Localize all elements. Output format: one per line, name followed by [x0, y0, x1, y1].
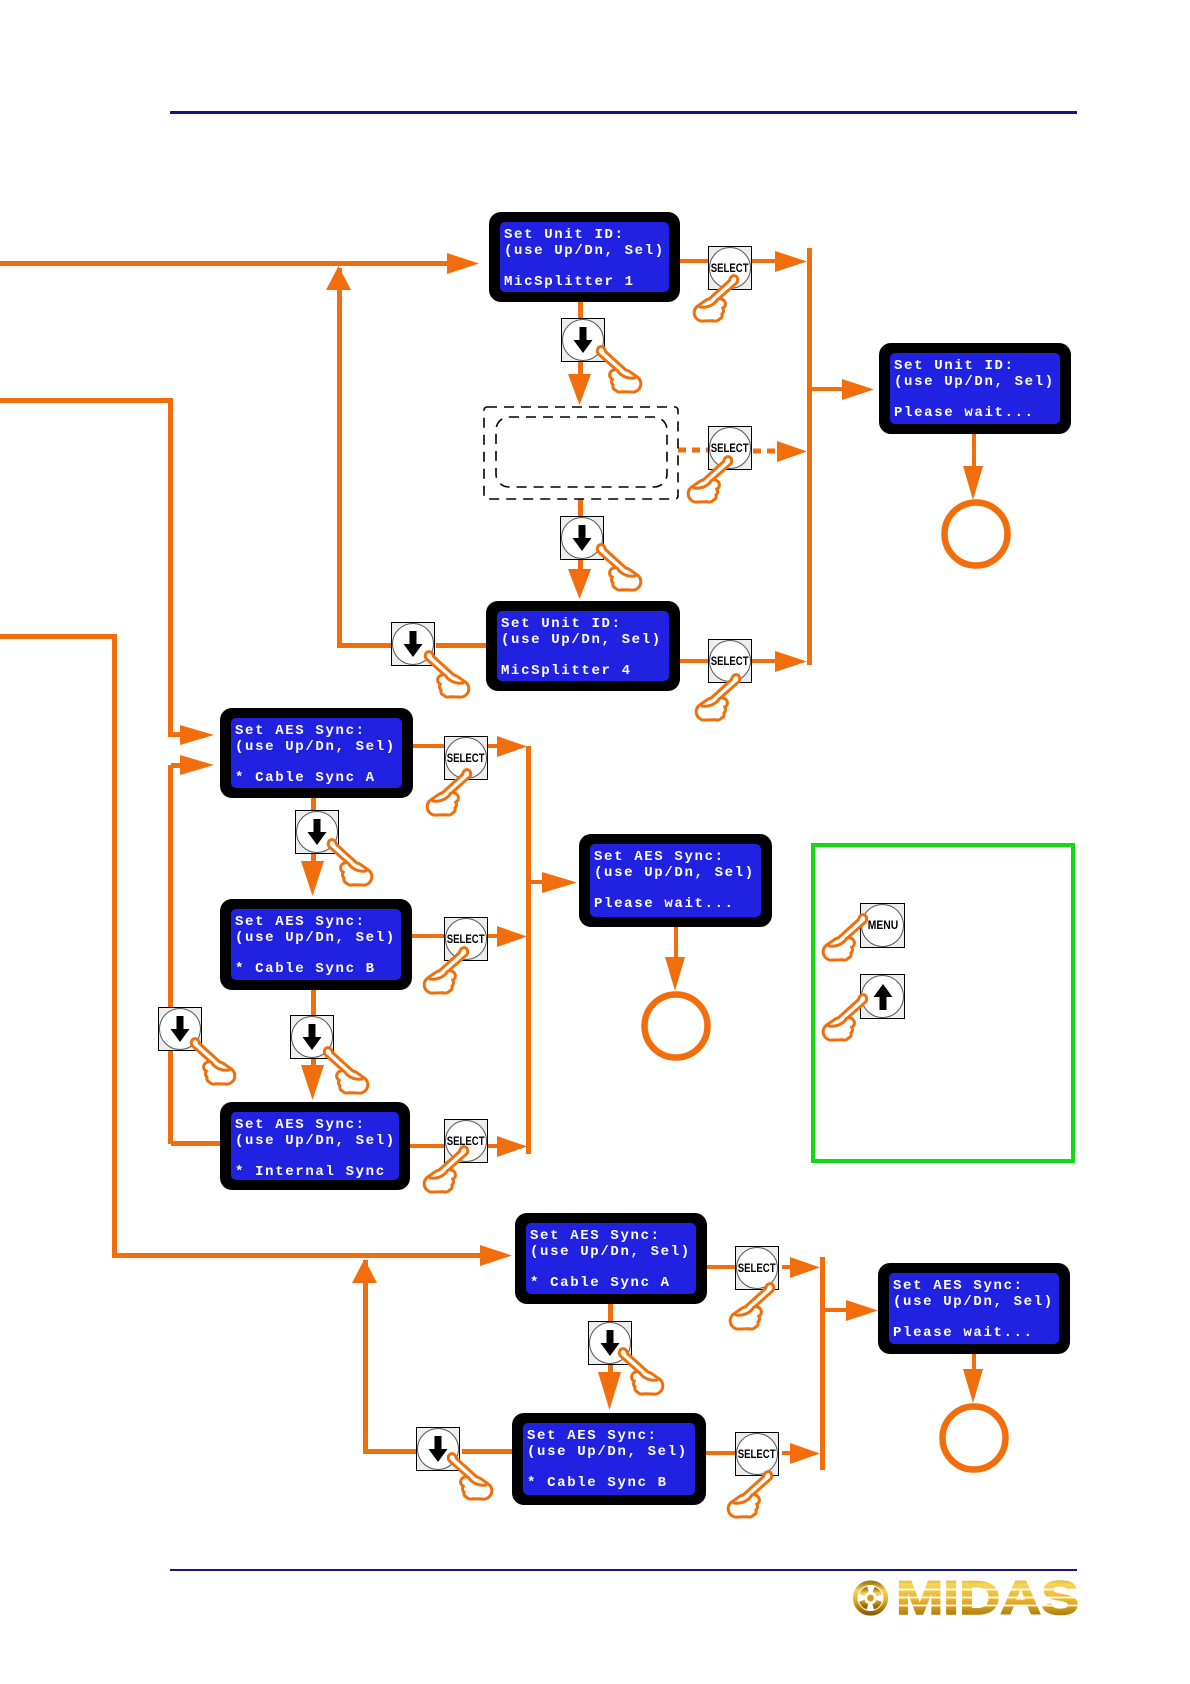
button SELECT S7: [735, 1246, 779, 1290]
wire: bus 2 vertical: [526, 746, 531, 1154]
top rule: [170, 111, 1077, 114]
wire: Cable Sync A screen to SELECT S4: [413, 744, 444, 748]
hand at button D1: [597, 347, 640, 393]
wire: entry line 3 from left edge down to bottom Set AES Sync screen: [0, 634, 117, 639]
button down D6: [290, 1015, 334, 1059]
hand at button D6: [324, 1048, 367, 1094]
button down D2: [560, 516, 604, 560]
wire: entry line 2 from left edge to Set AES Sync screen: [0, 398, 173, 403]
wire: arrow AES Please wait screen to end circle 2: [674, 927, 678, 958]
wire: wrap loop from down button D3 up to line 1: [337, 268, 342, 645]
LCD screen: Set Unit ID / Please wait: [879, 343, 1071, 434]
wire: arrow SELECT S4 to bus 2: [488, 744, 498, 748]
button SELECT S5: [444, 917, 488, 961]
wire: down button D8 to bottom Cable Sync B screen: [462, 1449, 512, 1454]
LCD screen: Set AES Sync / Please wait: [579, 834, 772, 927]
wire: Set Unit ID screen to SELECT S1: [680, 259, 708, 263]
wire: arrow bus 1 to Please wait screen: [812, 387, 843, 391]
LCD screen: Set AES Sync / Cable Sync B: [220, 899, 412, 990]
green highlight box: [813, 845, 1073, 1161]
button down D8: [416, 1427, 460, 1471]
button down D1: [561, 318, 605, 362]
wire: Internal Sync screen to SELECT S6: [410, 1144, 444, 1148]
wire: bottom Cable Sync B screen to SELECT S8: [706, 1451, 735, 1455]
hand at button D8: [448, 1454, 491, 1500]
hand at button MENU: [823, 915, 866, 961]
button SELECT S1: [708, 246, 752, 290]
wire: arrow from down button D4 to Cable Sync B screen: [311, 853, 316, 862]
hand at button S7: [730, 1284, 773, 1330]
MIDAS logo wordmark: [894, 1571, 1080, 1624]
wire: stub below bottom Cable Sync A screen: [608, 1304, 613, 1321]
hand at button D3: [425, 652, 468, 698]
wire: arrow SELECT S1 to bus 1: [752, 259, 776, 263]
button down D4: [295, 810, 339, 854]
bottom rule: [170, 1569, 1077, 1571]
wire: bus 3 vertical: [820, 1257, 825, 1470]
button SELECT S6: [444, 1119, 488, 1163]
hand at button S8: [728, 1472, 771, 1518]
hand at button D4: [328, 840, 371, 886]
button down D5: [158, 1007, 202, 1051]
button down D3: [391, 622, 435, 666]
wire: stub below Set Unit ID screen: [578, 302, 583, 318]
wire: dashed arrow SELECT S2 to bus 1: [753, 449, 780, 454]
wire: arrow bus 3 to bottom Please wait screen: [825, 1308, 847, 1312]
wire: Cable Sync B screen to SELECT S5: [412, 934, 444, 938]
hand at button S6: [424, 1147, 467, 1193]
button MENU: [860, 903, 905, 948]
wire: arrow from down button D2 to MicSplitter 4 screen: [578, 560, 583, 570]
end circle 2: [645, 995, 708, 1058]
button SELECT S4: [444, 736, 488, 780]
wire: arrow SELECT S3 to bus 1: [752, 659, 776, 663]
button SELECT S8: [735, 1432, 779, 1476]
wire: arrow SELECT S6 to bus 2: [487, 1144, 498, 1148]
wire: entry line 1 from left edge to Set Unit ID screen: [0, 261, 455, 266]
button down D7: [588, 1321, 632, 1365]
wire: arrow SELECT S8 to bus 3: [782, 1451, 791, 1455]
wire: arrow from down button D1 to dashed screen: [578, 362, 583, 375]
wire: MicSplitter 4 screen to SELECT S3: [680, 659, 708, 663]
end circle 1: [945, 503, 1008, 566]
MIDAS logo emblem: [855, 1583, 886, 1614]
wire: stub below Cable Sync A screen: [311, 798, 316, 810]
wire: wrap loop from Internal Sync screen via down button D5 to Cable Sync A screen: [168, 765, 173, 1144]
button up: [860, 974, 905, 1019]
wire: stub below dashed screen: [578, 499, 583, 516]
hand at button D5: [191, 1039, 234, 1085]
LCD screen: Set AES Sync / Internal Sync: [220, 1102, 410, 1190]
hand at button S3: [696, 675, 739, 721]
end circle 3: [943, 1407, 1006, 1470]
wire: dashed connector dashed screen to SELECT S2: [678, 448, 708, 453]
hand at button S2: [688, 457, 731, 503]
wire: arrow Please wait screen to end circle 1: [972, 434, 976, 467]
wire: arrow bus 2 to AES Please wait screen: [531, 880, 543, 884]
wire: down button D3 to MicSplitter 4 screen: [436, 643, 486, 648]
LCD screen: bottom Set AES Sync / Cable Sync A: [515, 1213, 707, 1304]
LCD screen: bottom Set AES Sync / Cable Sync B: [512, 1413, 706, 1505]
LCD screen: bottom Set AES Sync / Please wait: [878, 1263, 1070, 1354]
button SELECT S3: [708, 639, 752, 683]
wire: stub below Cable Sync B screen: [311, 990, 316, 1015]
hand at button S4: [427, 770, 470, 816]
hand at button D7: [619, 1349, 662, 1395]
hand at button S1: [694, 276, 737, 322]
LCD screen: Set AES Sync / Cable Sync A: [220, 708, 413, 798]
wire: arrow SELECT S5 to bus 2: [488, 934, 498, 938]
hand at button UP: [823, 995, 866, 1041]
LCD screen: Set Unit ID / MicSplitter 1: [489, 212, 680, 302]
wire: arrow from down button D6 to Internal Sync screen: [311, 1059, 316, 1066]
hand at button S5: [424, 948, 467, 994]
hand at button D2: [597, 545, 640, 591]
dashed blank screen: [484, 407, 678, 499]
wire: arrow SELECT S7 to bus 3: [782, 1265, 791, 1269]
wire: bottom Cable Sync A screen to SELECT S7: [707, 1265, 735, 1269]
wire: bus 1 vertical: [807, 248, 812, 665]
LCD screen: MicSplitter 4: [486, 601, 680, 691]
wire: arrow bottom Please wait screen to end circle 3: [972, 1354, 976, 1370]
wire: arrow from down button D7 to bottom Cable Sync B screen: [608, 1365, 613, 1373]
wire: bottom wrap loop from down button D8 up to entry line 3: [363, 1260, 368, 1453]
button SELECT S2: [708, 426, 752, 470]
